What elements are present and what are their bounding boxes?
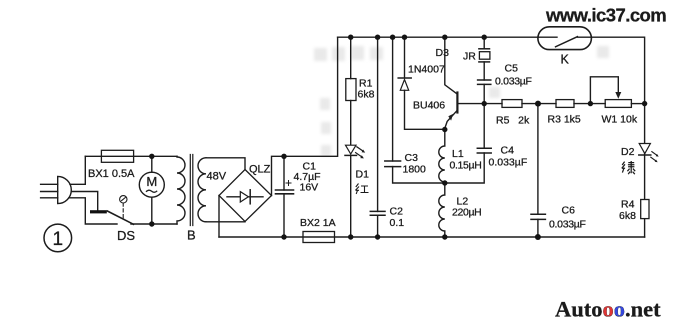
svg-text:0.033µF: 0.033µF [489,157,528,169]
svg-text:1: 1 [53,229,64,250]
svg-text:48V: 48V [207,171,227,183]
svg-text:Autooo.net: Autooo.net [555,297,661,322]
svg-text:www.ic37.com: www.ic37.com [545,5,666,26]
svg-text:D3: D3 [436,47,450,59]
svg-text:R4: R4 [621,199,635,211]
svg-text:JR: JR [463,51,476,63]
svg-text:QLZ: QLZ [249,164,271,176]
svg-text:16V: 16V [300,182,319,194]
svg-text:0.033µF: 0.033µF [549,219,586,231]
svg-text:BX2 1A: BX2 1A [300,217,336,229]
svg-text:C6: C6 [562,205,576,217]
svg-text:K: K [561,53,570,67]
svg-text:6k8: 6k8 [619,210,636,222]
svg-text:220µH: 220µH [452,207,481,219]
svg-text:C4: C4 [501,145,515,157]
svg-text:C3: C3 [405,152,419,164]
svg-text:D1: D1 [356,169,370,181]
svg-text:1800: 1800 [403,164,427,176]
svg-text:0.033µF: 0.033µF [495,76,532,88]
svg-text:B: B [187,228,196,243]
svg-text:6k8: 6k8 [358,89,375,101]
svg-text:R3 1k5: R3 1k5 [548,114,581,126]
svg-text:M: M [146,174,157,189]
svg-text:0.1: 0.1 [390,217,405,229]
svg-text:R5 2k: R5 2k [496,115,530,127]
svg-text:D2: D2 [621,146,635,158]
svg-text:L1: L1 [452,148,464,160]
svg-text:C5: C5 [505,63,519,75]
svg-text:BU406: BU406 [413,100,445,112]
svg-text:BX1 0.5A: BX1 0.5A [88,168,135,180]
svg-text:C2: C2 [390,206,404,218]
svg-text:DS: DS [117,228,135,243]
svg-text:W1 10k: W1 10k [602,114,638,126]
svg-text:0.15µH: 0.15µH [450,160,482,172]
svg-text:1N4007: 1N4007 [408,64,445,76]
